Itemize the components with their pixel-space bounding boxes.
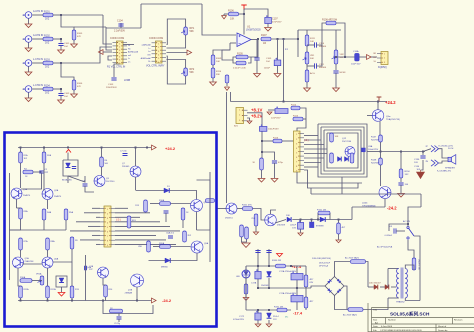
junction <box>47 300 49 302</box>
wire <box>396 230 405 232</box>
svg-text:2: 2 <box>158 47 159 49</box>
label R104 <box>44 84 50 87</box>
wire ch1 to U2 pin <box>103 15 112 44</box>
ground under C118 <box>398 194 405 198</box>
wire resistor to node <box>53 88 61 90</box>
wire <box>421 160 424 170</box>
pin number U3 <box>158 54 159 56</box>
wire mid bus <box>10 229 67 231</box>
wire CON10 fan <box>115 216 140 218</box>
ground left column <box>304 88 311 92</box>
capacitor C116 <box>272 161 277 163</box>
ground VR2 column <box>333 88 340 92</box>
wire <box>255 226 257 232</box>
label 22P <box>89 269 93 271</box>
svg-text:2: 2 <box>239 115 240 117</box>
label R106 <box>228 10 234 13</box>
wire <box>67 153 69 161</box>
svg-text:4-Jan-2006: 4-Jan-2006 <box>381 326 393 328</box>
label 1K2 <box>45 18 50 21</box>
pin number CON10 <box>107 227 108 229</box>
bridge rectifier D35-D38 <box>325 277 344 296</box>
capacitor C105 <box>254 58 259 60</box>
wire <box>338 220 340 224</box>
wire transformer sec bottom <box>405 298 420 301</box>
amp board connector CON10 <box>100 206 115 247</box>
junction <box>296 287 298 289</box>
resistor R21 zobel <box>110 309 123 313</box>
label R151 2W <box>317 210 327 212</box>
label RP2 <box>190 68 195 71</box>
diode D12 <box>345 157 349 162</box>
label C8A <box>368 145 373 148</box>
svg-text:47K: 47K <box>77 36 81 38</box>
wire <box>300 229 302 232</box>
port +24 rail <box>152 145 157 150</box>
junction <box>335 56 337 58</box>
svg-text:R103: R103 <box>44 58 50 61</box>
label R14 <box>109 289 114 291</box>
svg-text:R151 47K: R151 47K <box>242 205 252 207</box>
svg-text:R161 2W: R161 2W <box>274 306 284 308</box>
power amp module boundary box <box>5 133 217 327</box>
label R4 <box>24 169 28 171</box>
wire power feed down <box>247 113 262 158</box>
transistor Q12 <box>345 147 355 157</box>
svg-text:1K2: 1K2 <box>45 18 50 21</box>
wire CON10 fan <box>115 225 170 227</box>
wire gnd stub <box>223 14 225 16</box>
label SL <box>374 61 377 63</box>
net label Lr <box>128 57 130 60</box>
wire jack to resistor <box>32 62 43 64</box>
svg-text:L-CH2 IN: L-CH2 IN <box>33 84 43 87</box>
label IN <box>22 15 25 17</box>
label C105 <box>266 58 272 60</box>
label C6A 2n2 <box>166 231 175 234</box>
svg-text:R8A: R8A <box>51 240 56 243</box>
wire CON10 fan <box>115 239 166 241</box>
pin number CON10 <box>107 222 108 224</box>
label 1R <box>263 42 266 45</box>
svg-text:R107: R107 <box>261 34 267 37</box>
label 63V <box>310 282 314 284</box>
junction <box>102 300 104 302</box>
transistor Q6A <box>42 257 53 268</box>
electrolytic capacitor C109 <box>274 58 281 66</box>
resistor R154 <box>245 227 249 239</box>
wire bridge AC bottom <box>335 296 349 310</box>
wire CON10 fan left <box>92 207 100 209</box>
wire <box>71 298 73 301</box>
wire <box>136 190 165 192</box>
svg-text:R4A: R4A <box>47 211 52 214</box>
label U5K <box>138 246 143 248</box>
pin number U10 <box>296 143 297 145</box>
wire <box>182 220 184 228</box>
svg-text:7: 7 <box>296 162 297 164</box>
svg-text:R151 2W: R151 2W <box>317 210 327 212</box>
resistor R119 <box>330 153 334 163</box>
svg-text:+24.2: +24.2 <box>385 100 396 105</box>
resistor R155 2W <box>318 211 330 215</box>
net label AGNDaddl2 <box>141 57 151 60</box>
wire output line <box>271 38 298 40</box>
diode D2A <box>59 278 64 283</box>
wire <box>20 163 22 188</box>
wire <box>400 178 402 182</box>
svg-text:A-CH2 IN: A-CH2 IN <box>33 34 44 37</box>
ground large <box>242 243 250 247</box>
svg-text:Q10b: Q10b <box>362 203 368 205</box>
svg-text:TDA(2SD718): TDA(2SD718) <box>386 118 400 121</box>
wire feedback loop 1 <box>318 124 367 177</box>
label 1K <box>186 212 189 214</box>
wire switch return <box>414 236 420 301</box>
svg-text:C:\PROGRAM FILES\DESIGN\SOL056: C:\PROGRAM FILES\DESIGN\SOL056.DDB <box>380 329 422 332</box>
wire from amp board <box>217 208 226 210</box>
transistor Q4B <box>98 267 109 278</box>
pin number CON10 <box>107 218 108 220</box>
label Q10b <box>362 203 368 205</box>
svg-text:C8A: C8A <box>368 145 373 148</box>
label C111 <box>319 64 325 66</box>
wire <box>245 294 247 297</box>
wire U2 pin1 <box>123 44 134 46</box>
resistor R106 shunt <box>72 80 76 90</box>
wire Q8 emitter <box>196 212 198 231</box>
wire up to network <box>297 30 299 39</box>
svg-text:R111: R111 <box>310 38 316 40</box>
svg-text:2: 2 <box>296 139 297 141</box>
wire <box>60 46 62 51</box>
label 104 <box>64 96 68 98</box>
resistor R111 <box>305 35 309 46</box>
wire <box>105 297 107 301</box>
label Q4A <box>87 266 92 269</box>
wire <box>67 176 69 183</box>
resistor R158 <box>304 275 308 287</box>
wire <box>47 268 49 286</box>
wire CON10 fan left <box>84 212 100 214</box>
bridge diode D37 <box>327 288 331 292</box>
wire <box>17 207 21 209</box>
svg-text:5: 5 <box>296 152 297 154</box>
transistor Q9 <box>191 241 203 253</box>
label fuse F2 <box>343 313 357 316</box>
trimmer RP2 <box>181 68 187 76</box>
label 47K <box>77 36 81 38</box>
capacitor C111 <box>315 63 317 68</box>
label MR364 <box>319 46 327 48</box>
junction <box>407 223 409 225</box>
wire sense line <box>226 92 228 203</box>
wire feedback pair right <box>248 57 251 63</box>
junction <box>283 101 285 103</box>
power +V flag <box>241 5 246 10</box>
net label -17.4 <box>293 311 303 316</box>
wire U2 lower pins <box>108 56 112 60</box>
wire +24 rail in box <box>18 147 151 149</box>
ground under J103 <box>25 72 32 76</box>
wire <box>268 278 270 288</box>
resistor R16 <box>160 202 171 206</box>
svg-text:10K: 10K <box>310 41 314 43</box>
resistor R106b <box>229 12 239 16</box>
power flag +24 <box>377 97 382 102</box>
svg-text:6: 6 <box>119 60 120 62</box>
label R4A <box>47 211 52 214</box>
label 47uF/25V <box>272 22 282 24</box>
resistor R150 <box>399 169 403 178</box>
label Q2A <box>54 189 59 192</box>
capacitor C101 <box>58 44 63 46</box>
label 1K2 <box>45 66 50 69</box>
electrolytic capacitor C113 10uF/50V <box>355 53 360 61</box>
pin number CON3 <box>239 115 240 117</box>
net label L-CH1 IN <box>33 58 43 61</box>
svg-text:2: 2 <box>107 213 108 215</box>
port VOL out right <box>187 50 192 55</box>
label AC SW <box>403 220 410 223</box>
svg-text:KQD5(I): KQD5(I) <box>378 66 387 69</box>
label 4K7 <box>342 227 347 229</box>
capacitor C2 <box>39 171 43 173</box>
capacitor C110 <box>315 42 317 47</box>
label 2SA970 <box>23 194 31 197</box>
fuse F2 AC <box>348 308 363 312</box>
resistor R162 fusible <box>412 258 416 270</box>
junction <box>261 140 263 142</box>
wire CON10 fan left <box>70 230 100 232</box>
svg-text:LVDB: LVDB <box>124 79 130 82</box>
ground arrow under C136 <box>417 170 425 179</box>
wire network top rail <box>298 29 341 31</box>
zener diode ZD4 <box>267 313 272 318</box>
label R6 <box>105 160 109 162</box>
label L1 <box>285 48 288 51</box>
title block label Title <box>373 309 378 312</box>
label R103 <box>44 58 50 61</box>
wire <box>61 287 63 292</box>
svg-text:AC SW: AC SW <box>403 220 410 223</box>
label Q1A <box>23 188 28 191</box>
trimmer RP1 <box>181 27 187 35</box>
resistor R7A <box>19 238 23 250</box>
label 104 <box>266 61 270 63</box>
svg-text:2SC2240: 2SC2240 <box>342 141 352 143</box>
wire <box>317 45 323 66</box>
ground ZD4 <box>266 324 272 327</box>
svg-text:Revision: Revision <box>454 320 463 322</box>
label Number <box>388 319 396 322</box>
svg-text:3: 3 <box>119 50 120 52</box>
svg-text:9: 9 <box>296 171 297 173</box>
svg-text:470p: 470p <box>278 162 284 164</box>
resistor R118 <box>330 133 334 142</box>
svg-text:10K: 10K <box>216 61 220 63</box>
svg-text:2SA970M: 2SA970M <box>25 260 34 263</box>
label TIP(2SB688A) <box>362 205 376 208</box>
svg-text:C105: C105 <box>266 58 272 60</box>
electrolytic capacitor C125 <box>291 293 303 302</box>
label R-CH <box>448 148 454 150</box>
wire <box>47 250 49 257</box>
svg-text:+8.1V: +8.1V <box>251 108 262 113</box>
label R7A <box>24 240 29 243</box>
wire <box>43 148 45 153</box>
diode D11 <box>338 157 342 162</box>
svg-text:Sheet of: Sheet of <box>438 325 447 328</box>
svg-text:L-CH1 IN: L-CH1 IN <box>33 58 43 61</box>
svg-text:-24.2: -24.2 <box>162 298 172 303</box>
ground under C102 <box>58 100 65 104</box>
label Q9A <box>204 242 209 245</box>
resistor R157 <box>244 284 248 294</box>
label Q6A <box>54 258 59 261</box>
label R110 <box>216 71 222 73</box>
svg-text:C107: C107 <box>272 18 278 21</box>
label MR364 <box>319 67 327 69</box>
label 10K <box>216 61 220 63</box>
pin number U3 <box>158 51 159 53</box>
wire to R150 <box>400 152 402 170</box>
wire jack to ground <box>28 18 30 24</box>
wire <box>306 64 308 70</box>
wire branch <box>262 152 275 160</box>
resistor R112 <box>305 70 309 82</box>
wire collector to +24 rail <box>377 102 379 110</box>
wire emitter drop <box>85 255 87 301</box>
svg-text:MC: MC <box>285 317 289 319</box>
wire <box>300 108 306 119</box>
svg-text:8: 8 <box>107 241 108 243</box>
ground under C109 <box>274 74 281 78</box>
net label L-CH2 IN <box>33 84 43 87</box>
resistor R109 <box>211 55 215 65</box>
wire to Q8 <box>169 191 196 200</box>
wire CON10 fan left <box>80 239 100 241</box>
junction <box>136 300 138 302</box>
label LED <box>236 276 241 278</box>
label 470p <box>278 162 284 164</box>
transistor Q1A <box>11 188 22 199</box>
wire <box>150 203 160 205</box>
svg-text:R101: R101 <box>44 10 50 13</box>
label 2SA970 <box>54 195 62 198</box>
label Q8 <box>204 202 208 204</box>
wire resistor to node <box>53 14 61 16</box>
electrolytic capacitor C107 <box>265 15 272 23</box>
svg-text:4: 4 <box>158 54 159 56</box>
capacitor C136 <box>420 156 425 158</box>
wire <box>317 30 323 45</box>
LED D10A <box>66 163 71 168</box>
svg-text:R102: R102 <box>44 34 50 37</box>
svg-text:0.22uF C106: 0.22uF C106 <box>233 68 246 70</box>
label 47K <box>77 86 81 88</box>
label R147 <box>371 137 377 139</box>
label R2A <box>47 154 52 157</box>
diode D13 <box>287 217 291 222</box>
label ZD4.4 <box>273 316 280 318</box>
label C16A <box>353 50 359 53</box>
resistor R121 R22/5W <box>379 135 383 142</box>
svg-text:R105: R105 <box>77 33 83 35</box>
pin number U2 <box>119 53 120 55</box>
label R22/5W <box>371 140 379 142</box>
wire ch2 branch <box>74 26 106 28</box>
svg-text:50K: 50K <box>190 71 195 74</box>
wire <box>310 188 312 194</box>
label 154 <box>405 184 409 186</box>
svg-text:R10A: R10A <box>20 276 26 279</box>
resistor R20 <box>160 245 171 249</box>
label R111 <box>310 38 316 40</box>
svg-text:+8.2V: +8.2V <box>251 114 262 119</box>
label 2200P/50V <box>106 87 117 89</box>
transistor Q3 <box>94 176 105 187</box>
wire <box>41 173 43 189</box>
wire <box>274 163 276 178</box>
label 1K <box>252 162 255 164</box>
svg-text:DPDT6-A: DPDT6-A <box>319 265 329 268</box>
pin number CON10 <box>107 209 108 211</box>
resistor R115 <box>293 117 303 121</box>
svg-text:C6A 2n2: C6A 2n2 <box>166 231 175 234</box>
wire CON10 fan <box>115 230 180 232</box>
svg-text:6: 6 <box>296 157 297 159</box>
svg-text:R7A: R7A <box>24 240 29 243</box>
wire <box>335 73 337 88</box>
label C9 <box>114 323 121 325</box>
svg-text:DDS-470uF: DDS-470uF <box>319 263 331 265</box>
zener diode ZD1 <box>267 272 272 277</box>
svg-text:VOL CTRL IN/RY: VOL CTRL IN/RY <box>146 65 165 68</box>
wire Q16 out <box>275 220 286 224</box>
pin number CON10 <box>107 232 108 234</box>
resistor R113 <box>225 75 229 83</box>
label 2SD669 <box>122 166 130 168</box>
pin number CON10 <box>107 236 108 238</box>
label 2SD669 <box>277 225 286 227</box>
label Size <box>373 320 378 322</box>
wire from loops <box>367 151 381 153</box>
wire <box>43 220 45 230</box>
wire protect rail <box>292 219 352 221</box>
wire <box>262 140 273 142</box>
label 0.22uF C106 <box>233 68 246 70</box>
RCA jack J104 <box>23 86 32 93</box>
wire top rail <box>141 3 202 5</box>
resistor R11A <box>19 286 23 298</box>
wire <box>305 308 307 310</box>
electrolytic capacitor C123 <box>255 269 261 279</box>
svg-text:C136: C136 <box>414 166 420 168</box>
svg-text:+24.2: +24.2 <box>165 146 176 151</box>
capacitor C4A <box>164 211 169 213</box>
net label Lr2 <box>149 47 151 50</box>
svg-text:C9 Rg: C9 Rg <box>114 323 121 325</box>
capacitor C7 <box>123 154 128 156</box>
wire RP1 wiper return <box>167 35 186 48</box>
svg-text:3: 3 <box>239 120 240 122</box>
label R1A <box>24 154 29 157</box>
wire jack to resistor <box>32 38 43 40</box>
svg-text:Rr: Rr <box>148 60 151 63</box>
transistor Q7 <box>130 166 141 177</box>
net label A-CH1 IN <box>33 10 44 13</box>
